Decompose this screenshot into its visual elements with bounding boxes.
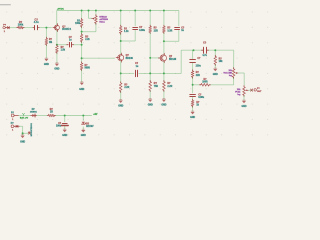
svg-text:GND: GND: [161, 105, 166, 107]
svg-text:GND: GND: [190, 117, 195, 119]
svg-text:GND: GND: [79, 89, 84, 91]
svg-text:1.8k: 1.8k: [61, 50, 66, 52]
svg-text:2.2R: 2.2R: [124, 87, 129, 89]
svg-text:MOUNTING1: MOUNTING1: [31, 122, 33, 136]
svg-text:GND: GND: [54, 69, 59, 71]
svg-text:2.2R: 2.2R: [167, 86, 172, 88]
svg-text:Rbias: Rbias: [99, 22, 105, 24]
svg-text:1M: 1M: [49, 42, 52, 44]
svg-text:220u: 220u: [196, 66, 202, 68]
svg-text:+9VDC: +9VDC: [57, 9, 65, 11]
svg-text:560R: 560R: [85, 68, 91, 70]
svg-text:22R: 22R: [154, 31, 159, 33]
svg-text:75R: 75R: [154, 86, 159, 88]
svg-text:1R: 1R: [50, 112, 53, 114]
svg-text:GND: GND: [20, 141, 25, 143]
svg-text:3.3R: 3.3R: [167, 31, 172, 33]
svg-text:OUT: OUT: [257, 91, 262, 93]
svg-text:100R: 100R: [202, 82, 208, 84]
svg-text:BZX9V: BZX9V: [86, 126, 94, 128]
svg-text:BD139: BD139: [126, 58, 134, 60]
svg-text:BD140: BD140: [169, 58, 177, 61]
svg-text:GND: GND: [118, 106, 123, 108]
svg-text:22R: 22R: [196, 75, 201, 77]
svg-text:2.2k: 2.2k: [85, 39, 90, 41]
svg-text:100u: 100u: [56, 126, 62, 128]
svg-text:1N4001: 1N4001: [30, 111, 38, 114]
svg-text:GND: GND: [81, 135, 86, 137]
svg-text:GND: GND: [44, 64, 49, 66]
svg-text:GND: GND: [62, 135, 67, 137]
svg-text:+9V: +9V: [93, 114, 98, 116]
svg-text:4.7u: 4.7u: [202, 54, 207, 57]
svg-text:BC547A: BC547A: [62, 28, 71, 31]
svg-text:1.1k: 1.1k: [124, 31, 129, 33]
svg-text:100k: 100k: [18, 24, 24, 27]
svg-text:GND: GND: [213, 74, 218, 76]
svg-text:GND: GND: [242, 106, 247, 108]
svg-text:BAT_9V: BAT_9V: [20, 117, 29, 120]
svg-text:0.68u: 0.68u: [139, 30, 145, 32]
svg-text:150k: 150k: [75, 23, 81, 25]
svg-text:GND: GND: [148, 105, 153, 107]
svg-text:0.68u: 0.68u: [198, 97, 204, 99]
svg-text:4.7u: 4.7u: [34, 21, 39, 24]
